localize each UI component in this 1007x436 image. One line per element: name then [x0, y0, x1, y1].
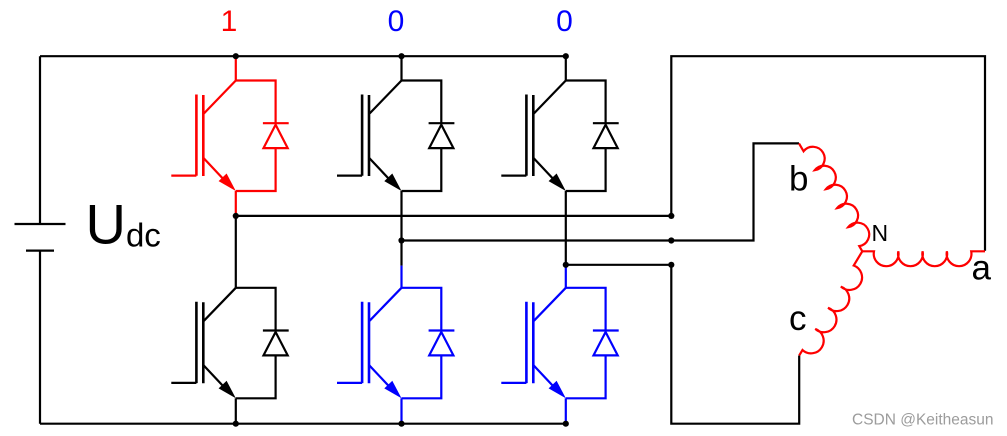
- IGBT upper leg3 (black) with anti-parallel diode: collector diagonal: [534, 81, 566, 114]
- leg1 upper emitter wire to phase-a node (red): [235, 191, 237, 215]
- IGBT lower leg1 (black) with anti-parallel diode: diode triangle (anode, pointing up): [264, 332, 288, 355]
- junction dot: phase-b bus junction: [668, 237, 674, 243]
- winding phase c coil (red, diagonal down-left from neutral N): [799, 251, 875, 363]
- junction dot: bottom bus junction leg1: [233, 421, 239, 427]
- IGBT lower leg3 (on-state, blue) with anti-parallel diode: gate lead: [501, 382, 526, 384]
- IGBT lower leg2 (on-state, blue) with anti-parallel diode: IGBT body bar (right): [368, 302, 371, 383]
- leg2 upper collector wire from top bus: [400, 56, 402, 80]
- leg2 lower emitter wire to bottom bus (blue): [400, 398, 402, 422]
- IGBT upper leg1 (on-state, red) with anti-parallel diode: collector diagonal: [204, 81, 236, 114]
- IGBT lower leg2 (on-state, blue) with anti-parallel diode: [337, 288, 454, 399]
- IGBT upper leg2 (black) with anti-parallel diode: gate lead: [337, 175, 362, 177]
- IGBT upper leg3 (black) with anti-parallel diode: emitter arrowhead: [549, 174, 566, 192]
- leg3 lower emitter wire to bottom bus (blue): [565, 398, 567, 422]
- IGBT upper leg1 (on-state, red) with anti-parallel diode: [171, 81, 288, 192]
- IGBT upper leg1 (on-state, red) with anti-parallel diode: diode cathode bar: [263, 122, 289, 124]
- IGBT upper leg1 (on-state, red) with anti-parallel diode: diode branch lower wire: [236, 148, 276, 191]
- IGBT upper leg2 (black) with anti-parallel diode: collector diagonal: [370, 81, 402, 114]
- IGBT lower leg1 (black) with anti-parallel diode: emitter arrowhead: [219, 381, 236, 399]
- junction dot: phase-a node at leg1: [233, 213, 239, 219]
- svg-text:1: 1: [221, 5, 238, 38]
- IGBT upper leg3 (black) with anti-parallel diode: collector top rail and diode branch upper wire: [566, 81, 606, 124]
- IGBT lower leg3 (on-state, blue) with anti-parallel diode: [501, 288, 618, 399]
- IGBT lower leg3 (on-state, blue) with anti-parallel diode: diode branch lower wire: [566, 355, 606, 398]
- IGBT lower leg1 (black) with anti-parallel diode: [171, 288, 288, 399]
- svg-text:0: 0: [556, 5, 573, 38]
- phase-c output wire from leg3 midpoint to corner: [566, 265, 799, 424]
- IGBT lower leg1 (black) with anti-parallel diode: IGBT gate bar (left): [195, 302, 198, 383]
- junction dot: bottom bus junction leg2: [398, 421, 404, 427]
- IGBT upper leg1 (on-state, red) with anti-parallel diode: IGBT body bar (right): [202, 95, 205, 176]
- IGBT upper leg3 (black) with anti-parallel diode: IGBT gate bar (left): [525, 95, 528, 176]
- IGBT lower leg3 (on-state, blue) with anti-parallel diode: emitter diagonal: [533, 365, 557, 390]
- IGBT upper leg1 (on-state, red) with anti-parallel diode: IGBT gate bar (left): [195, 95, 198, 176]
- IGBT upper leg3 (black) with anti-parallel diode: emitter diagonal: [533, 158, 557, 183]
- winding phase b coil (red, diagonal up-left from neutral N): [799, 135, 876, 251]
- phase-b output wire from leg2 midpoint, up and over to winding b: [402, 143, 800, 240]
- IGBT upper leg1 (on-state, red) with anti-parallel diode: diode triangle (anode, pointing up): [264, 125, 288, 148]
- junction dot: phase-b node at leg2: [398, 237, 404, 243]
- leg2 lower collector wire (blue, on-state): [400, 266, 402, 288]
- IGBT lower leg3 (on-state, blue) with anti-parallel diode: diode cathode bar: [593, 329, 619, 331]
- svg-text:a: a: [972, 249, 992, 288]
- IGBT upper leg2 (black) with anti-parallel diode: IGBT gate bar (left): [361, 95, 364, 176]
- IGBT lower leg2 (on-state, blue) with anti-parallel diode: diode cathode bar: [429, 329, 455, 331]
- IGBT upper leg2 (black) with anti-parallel diode: diode branch lower wire: [402, 148, 442, 191]
- IGBT lower leg3 (on-state, blue) with anti-parallel diode: IGBT gate bar (left): [525, 302, 528, 383]
- IGBT upper leg2 (black) with anti-parallel diode: emitter arrowhead: [384, 174, 401, 192]
- IGBT lower leg1 (black) with anti-parallel diode: collector top rail and diode branch upper wire: [236, 288, 276, 331]
- IGBT lower leg2 (on-state, blue) with anti-parallel diode: emitter diagonal: [369, 365, 393, 390]
- junction dot: phase-c corner junction: [668, 262, 674, 268]
- battery Udc: short negative plate: [26, 250, 54, 252]
- IGBT lower leg2 (on-state, blue) with anti-parallel diode: IGBT gate bar (left): [361, 302, 364, 383]
- IGBT lower leg3 (on-state, blue) with anti-parallel diode: emitter arrowhead: [549, 381, 566, 399]
- IGBT lower leg2 (on-state, blue) with anti-parallel diode: diode triangle (anode, pointing up): [429, 332, 453, 355]
- leg2 upper emitter wire down to phase-b node: [400, 191, 402, 266]
- winding phase a coil (red, horizontal from neutral N): [862, 251, 985, 266]
- IGBT upper leg3 (black) with anti-parallel diode: [501, 81, 618, 192]
- svg-text:b: b: [789, 160, 808, 199]
- IGBT lower leg1 (black) with anti-parallel diode: diode cathode bar: [263, 329, 289, 331]
- junction dot: phase-a node at right column: [668, 213, 674, 219]
- IGBT upper leg1 (on-state, red) with anti-parallel diode: collector top rail and diode branch upper wire: [236, 81, 276, 124]
- leg3 lower collector wire (blue, on-state): [565, 267, 567, 288]
- left DC-link vertical wire (bottom half): [39, 251, 41, 424]
- leg1 lower collector wire from phase-a node: [235, 216, 237, 288]
- junction dot: phase-c node at leg3: [563, 262, 569, 268]
- IGBT upper leg3 (black) with anti-parallel diode: diode branch lower wire: [566, 148, 606, 191]
- battery Udc: long positive plate: [15, 223, 66, 225]
- IGBT upper leg2 (black) with anti-parallel diode: IGBT body bar (right): [368, 95, 371, 176]
- IGBT lower leg2 (on-state, blue) with anti-parallel diode: collector diagonal: [370, 288, 402, 321]
- junction dot: top bus junction leg1: [233, 53, 239, 59]
- left DC-link vertical wire (top half): [39, 56, 41, 224]
- IGBT upper leg3 (black) with anti-parallel diode: diode cathode bar: [593, 122, 619, 124]
- leg1 upper collector wire from top bus (red): [235, 57, 237, 80]
- svg-text:CSDN @Keitheasun: CSDN @Keitheasun: [852, 412, 994, 429]
- IGBT lower leg1 (black) with anti-parallel diode: diode branch lower wire: [236, 355, 276, 398]
- leg3 upper emitter wire down to phase-c node: [565, 191, 567, 267]
- IGBT lower leg1 (black) with anti-parallel diode: collector diagonal: [204, 288, 236, 321]
- IGBT upper leg2 (black) with anti-parallel diode: emitter diagonal: [369, 158, 393, 183]
- IGBT lower leg3 (on-state, blue) with anti-parallel diode: collector top rail and diode branch upper wire: [566, 288, 606, 331]
- svg-text:c: c: [789, 299, 807, 338]
- IGBT lower leg1 (black) with anti-parallel diode: gate lead: [171, 382, 196, 384]
- junction dot: top bus junction leg3: [563, 53, 569, 59]
- IGBT upper leg1 (on-state, red) with anti-parallel diode: gate lead: [171, 175, 196, 177]
- IGBT lower leg3 (on-state, blue) with anti-parallel diode: IGBT body bar (right): [532, 302, 535, 383]
- IGBT upper leg3 (black) with anti-parallel diode: gate lead: [501, 175, 526, 177]
- IGBT upper leg2 (black) with anti-parallel diode: diode triangle (anode, pointing up): [429, 125, 453, 148]
- IGBT upper leg3 (black) with anti-parallel diode: IGBT body bar (right): [532, 95, 535, 176]
- IGBT upper leg2 (black) with anti-parallel diode: [337, 81, 454, 192]
- IGBT upper leg2 (black) with anti-parallel diode: diode cathode bar: [429, 122, 455, 124]
- junction dot: top bus junction leg2: [398, 53, 404, 59]
- IGBT lower leg2 (on-state, blue) with anti-parallel diode: emitter arrowhead: [384, 381, 401, 399]
- IGBT upper leg1 (on-state, red) with anti-parallel diode: emitter diagonal: [203, 158, 227, 183]
- svg-text:Udc: Udc: [86, 192, 161, 255]
- svg-text:0: 0: [388, 5, 405, 38]
- bottom DC bus wire: [40, 423, 566, 425]
- leg1 lower emitter wire to bottom bus: [235, 398, 237, 423]
- IGBT upper leg2 (black) with anti-parallel diode: collector top rail and diode branch upper wire: [402, 81, 442, 124]
- IGBT lower leg3 (on-state, blue) with anti-parallel diode: collector diagonal: [534, 288, 566, 321]
- top DC bus wire: [40, 55, 566, 57]
- svg-text:N: N: [872, 220, 889, 246]
- IGBT lower leg1 (black) with anti-parallel diode: emitter diagonal: [203, 365, 227, 390]
- junction dot: bottom bus junction leg3: [563, 421, 569, 427]
- IGBT lower leg2 (on-state, blue) with anti-parallel diode: diode branch lower wire: [402, 355, 442, 398]
- IGBT lower leg3 (on-state, blue) with anti-parallel diode: diode triangle (anode, pointing up): [594, 332, 618, 355]
- IGBT lower leg2 (on-state, blue) with anti-parallel diode: collector top rail and diode branch upper wire: [402, 288, 442, 331]
- phase-a output wire from leg1 midpoint to right column: [236, 215, 672, 217]
- IGBT lower leg1 (black) with anti-parallel diode: IGBT body bar (right): [202, 302, 205, 383]
- leg3 upper collector wire from top bus: [565, 56, 567, 80]
- IGBT upper leg3 (black) with anti-parallel diode: diode triangle (anode, pointing up): [594, 125, 618, 148]
- phase-a routing: up right column, across top, down far right to winding a: [671, 56, 985, 251]
- IGBT lower leg2 (on-state, blue) with anti-parallel diode: gate lead: [337, 382, 362, 384]
- IGBT upper leg1 (on-state, red) with anti-parallel diode: emitter arrowhead: [219, 174, 236, 192]
